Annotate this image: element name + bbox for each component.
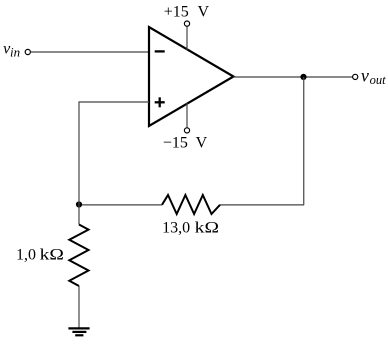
svg-text:V: V — [196, 134, 208, 151]
svg-text:1,0: 1,0 — [16, 246, 36, 263]
resistor R2 — [162, 195, 220, 214]
wire +15V supply to op-amp — [186, 26, 188, 50]
resistor R1 — [69, 225, 88, 287]
wire resistor R2 to feedback junction — [79, 204, 162, 206]
wire feedback right vertical — [303, 77, 305, 205]
op-amp U1 inverting input marker — [155, 50, 165, 52]
op-amp U1 body — [149, 27, 234, 126]
wire feedback junction to resistor R1 — [78, 205, 80, 225]
svg-text:in: in — [10, 45, 20, 60]
svg-text:v: v — [361, 65, 369, 85]
svg-text:out: out — [370, 73, 387, 87]
wire vin to inverting input — [31, 51, 150, 53]
junction output node — [300, 74, 306, 80]
wire resistor R1 to ground — [78, 286, 80, 328]
wire -15V supply to op-amp — [186, 103, 188, 128]
wire output — [234, 76, 353, 78]
junction feedback node — [76, 201, 82, 207]
terminal -15V — [184, 128, 189, 133]
ground — [68, 328, 89, 335]
svg-text:V: V — [198, 4, 210, 21]
op-amp U1 non-inverting input marker — [155, 97, 165, 107]
svg-text:kΩ: kΩ — [40, 246, 64, 263]
svg-text:kΩ: kΩ — [195, 220, 219, 237]
terminal vin — [25, 49, 30, 54]
svg-text:13,0: 13,0 — [162, 220, 190, 237]
terminal vout — [353, 74, 358, 79]
svg-text:−15: −15 — [163, 134, 188, 151]
svg-text:+15: +15 — [164, 4, 189, 21]
wire feedback corner to resistor R2 — [220, 204, 304, 206]
wire feedback junction to non-inverting input — [79, 102, 149, 205]
terminal +15V — [184, 21, 189, 26]
